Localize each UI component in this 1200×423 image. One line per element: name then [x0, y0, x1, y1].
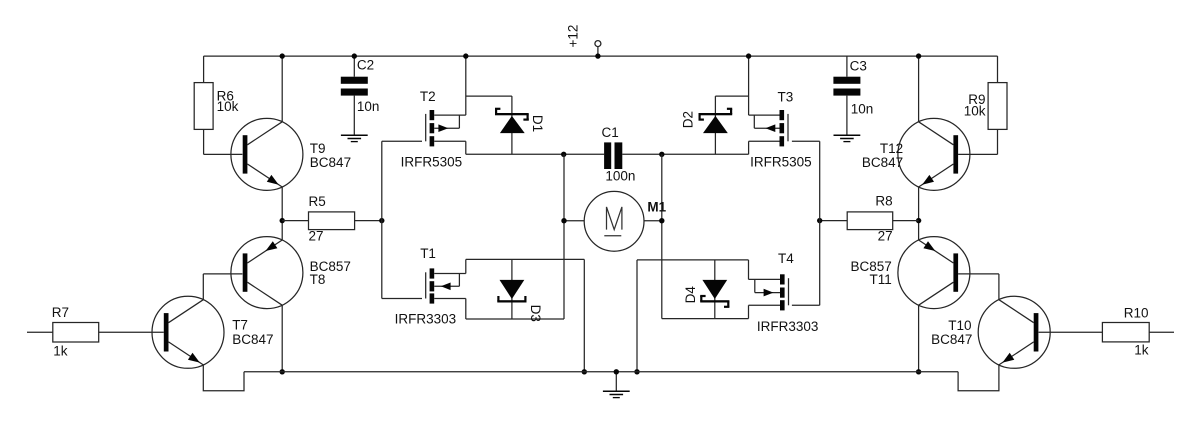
resistor R6: [194, 56, 238, 154]
wire T4 drain to motor edge: [662, 305, 780, 318]
wire T3 source to rail: [746, 53, 780, 115]
svg-text:D1: D1: [530, 115, 545, 132]
wire R6 to T9 base: [204, 153, 243, 155]
svg-text:27: 27: [878, 229, 893, 244]
wire T9 collector to rail: [280, 53, 285, 121]
svg-text:BC847: BC847: [232, 332, 273, 347]
resistor R5: [282, 194, 382, 243]
wire T1 source to gnd edge: [434, 259, 584, 273]
wire T10 emitter to bottom rail: [958, 365, 999, 391]
node T9/T8 junction: [280, 218, 285, 223]
svg-text:27: 27: [309, 228, 324, 243]
svg-text:T4: T4: [778, 251, 794, 266]
svg-text:D3: D3: [528, 305, 543, 322]
node R5 right junction: [379, 218, 384, 223]
svg-text:T3: T3: [778, 90, 794, 105]
svg-text:BC847: BC847: [931, 332, 972, 347]
transistor T11 BC857: [851, 237, 970, 309]
node T12/T11 junction: [916, 218, 921, 223]
wire T12 collector to rail: [916, 53, 921, 121]
transistor T9 BC847: [231, 118, 351, 190]
capacitor C1: [602, 125, 636, 184]
wire T9 emitter to node: [281, 187, 283, 221]
wire T7 collector to T8 base: [203, 274, 242, 300]
mosfet T3 IRFR5305: [750, 90, 812, 170]
svg-text:T2: T2: [420, 89, 436, 104]
supply terminal +12: [566, 25, 601, 59]
wire T7 emitter to bottom rail: [203, 365, 244, 391]
wire gnd edge left down: [582, 259, 587, 374]
capacitor C3: [833, 56, 873, 135]
wire T12 emitter to node: [918, 187, 920, 221]
svg-text:C1: C1: [602, 125, 619, 140]
svg-text:+12: +12: [566, 25, 581, 48]
svg-text:R10: R10: [1124, 306, 1149, 321]
svg-text:IRFR3303: IRFR3303: [395, 311, 457, 326]
svg-text:IRFR3303: IRFR3303: [757, 319, 819, 334]
mosfet T1 IRFR3303: [395, 246, 460, 326]
wire gnd edge right down: [634, 260, 639, 375]
svg-text:T7: T7: [232, 318, 248, 333]
wire T2 source to rail: [434, 53, 468, 115]
svg-text:10n: 10n: [851, 101, 874, 116]
svg-text:1k: 1k: [1134, 343, 1149, 358]
svg-text:D4: D4: [683, 286, 698, 304]
wire R9 to T12 base: [958, 153, 997, 155]
motor M1: [561, 191, 666, 251]
wire R8 node to T3 gate: [792, 141, 820, 220]
svg-text:R8: R8: [875, 194, 892, 209]
ground under C3: [834, 135, 861, 141]
wire R8 node to T4 gate: [792, 221, 820, 306]
svg-text:IRFR5305: IRFR5305: [750, 155, 812, 170]
svg-text:M1: M1: [647, 200, 666, 215]
svg-text:C3: C3: [850, 59, 867, 74]
svg-text:IRFR5305: IRFR5305: [401, 155, 463, 170]
svg-text:10k: 10k: [964, 104, 986, 119]
node R8 left junction: [817, 218, 822, 223]
wire bottom rail: [244, 371, 958, 373]
wire D1 top edge: [466, 95, 512, 97]
resistor R8: [820, 194, 919, 244]
ground under C2: [341, 135, 368, 141]
resistor R7: [27, 305, 164, 358]
svg-text:R7: R7: [52, 305, 69, 320]
diode D2: [680, 96, 732, 154]
svg-text:R5: R5: [309, 194, 326, 209]
mosfet T2 IRFR5305: [401, 89, 463, 170]
wire T4 source to gnd edge: [637, 260, 780, 280]
transistor T12 BC847: [862, 118, 970, 190]
wire R5 node to T1 gate: [382, 221, 422, 299]
wire D2 top edge: [715, 95, 748, 97]
capacitor C2: [341, 53, 380, 135]
svg-text:T8: T8: [310, 272, 326, 287]
wire T11 collector to bottom rail: [916, 305, 921, 374]
wire T3 drain to node: [622, 141, 779, 154]
diode D1: [495, 96, 545, 154]
node T2/C1/M1 junction: [561, 152, 566, 157]
svg-text:10n: 10n: [357, 99, 380, 114]
svg-text:10k: 10k: [217, 99, 239, 114]
transistor T10 BC847: [931, 296, 1050, 368]
wire M1 left vertical: [563, 154, 565, 319]
transistor T8 BC857: [231, 237, 351, 309]
svg-text:T11: T11: [870, 272, 892, 287]
svg-text:1k: 1k: [53, 344, 68, 359]
diode D3: [497, 259, 543, 321]
svg-text:T10: T10: [948, 318, 971, 333]
wire T1 drain to motor edge: [434, 299, 564, 320]
wire T8 collector to bottom rail: [280, 305, 285, 374]
wire M1 right vertical: [661, 154, 663, 318]
wire top +12 rail: [204, 55, 998, 57]
resistor R9: [964, 56, 1007, 154]
wire T11 emitter to node: [918, 221, 920, 240]
wire R5 node to T2 gate: [382, 141, 422, 220]
resistor R10: [1039, 306, 1174, 358]
svg-text:BC847: BC847: [310, 155, 351, 170]
svg-text:BC847: BC847: [862, 155, 903, 170]
svg-text:T9: T9: [310, 141, 326, 156]
svg-text:C2: C2: [357, 58, 374, 73]
ground main: [603, 369, 630, 398]
transistor T7 BC847: [152, 296, 273, 368]
wire T2 drain to node: [434, 141, 604, 154]
svg-text:D2: D2: [680, 111, 695, 128]
node T3/C1/M1 junction: [659, 152, 664, 157]
diode D4: [683, 260, 729, 319]
wire T8 emitter to node: [281, 221, 283, 240]
wire T10 collector to T11 base: [958, 274, 999, 300]
mosfet T4 IRFR3303: [755, 251, 819, 334]
svg-text:100n: 100n: [605, 169, 635, 184]
svg-text:T1: T1: [420, 246, 436, 261]
svg-text:T12: T12: [880, 141, 903, 156]
